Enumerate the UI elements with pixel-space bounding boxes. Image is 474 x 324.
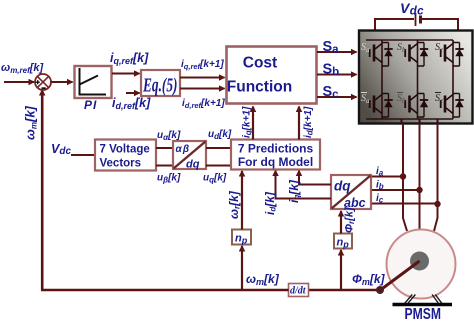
node phase b junction — [416, 187, 422, 193]
wire id[k+1] predictions to cost — [298, 107, 300, 140]
svg-text:Cost: Cost — [243, 55, 277, 72]
wire id[k] — [276, 171, 332, 199]
svg-text:ωm,ref[k]: ωm,ref[k] — [1, 62, 44, 75]
wire Sa — [317, 51, 357, 53]
svg-text:7 Predictions: 7 Predictions — [238, 142, 314, 156]
svg-text:id,ref[k+1]: id,ref[k+1] — [182, 98, 225, 110]
svg-text:uq[k]: uq[k] — [203, 173, 227, 185]
svg-text:Sc: Sc — [323, 84, 340, 101]
inverter top rail — [366, 39, 453, 41]
svg-text:ud[k]: ud[k] — [208, 129, 232, 141]
wire u_d — [206, 147, 231, 149]
label Sc' igbt — [435, 92, 441, 94]
summing junction — [35, 74, 51, 90]
svg-text:Sa: Sa — [323, 39, 340, 56]
svg-text:ic: ic — [376, 193, 384, 205]
wire iq[k+1] predictions to cost — [252, 107, 254, 140]
inverter bottom rail — [366, 118, 453, 120]
wire id,ref[k] stub to Eq5 — [126, 92, 140, 94]
block abc to dq transform — [331, 175, 371, 210]
gain block np left — [232, 230, 251, 246]
IGBT Sa bottom — [369, 94, 393, 118]
wire u_beta — [156, 165, 173, 167]
label Sa' igbt — [361, 92, 367, 94]
wire omega_r from feedback to np — [241, 246, 243, 290]
wire Sc — [317, 96, 357, 98]
svg-text:ia: ia — [376, 166, 384, 178]
wire iq,ref[k] PI to Eq5 — [112, 73, 140, 75]
motor base — [393, 303, 453, 306]
svg-text:iq,ref[k+1]: iq,ref[k+1] — [181, 59, 224, 71]
inverter phase output stubs — [402, 119, 438, 124]
inverter U1 — [359, 31, 473, 124]
wire phase b — [419, 124, 421, 230]
wire u_q — [206, 165, 231, 167]
wire ib tap — [371, 189, 420, 191]
svg-text:Vdc: Vdc — [400, 0, 424, 18]
svg-text:id,ref[k]: id,ref[k] — [112, 96, 151, 111]
block d/dt — [289, 284, 309, 297]
svg-text:αβ: αβ — [176, 144, 191, 155]
wire feedback bottom right — [308, 289, 380, 291]
block Eq.(5) — [141, 70, 180, 97]
IGBT Sc bottom — [440, 94, 464, 118]
motor foot right — [432, 295, 442, 304]
svg-text:ωm[k]: ωm[k] — [246, 272, 280, 287]
svg-text:ωr[k]: ωr[k] — [227, 190, 242, 219]
block Cost Function — [227, 47, 317, 104]
wire feedback bottom left — [41, 289, 289, 292]
wire omega_m,ref input — [4, 81, 34, 83]
wire Sb — [317, 74, 357, 76]
sensor node phi_m — [376, 286, 384, 294]
wire Vdc to voltage vectors — [71, 154, 95, 156]
wire Vdc supply top — [375, 19, 414, 31]
wire ic tap — [371, 203, 438, 205]
svg-text:iq,ref[k]: iq,ref[k] — [110, 51, 149, 66]
wire iq[k] — [299, 171, 331, 185]
svg-text:PMSM: PMSM — [405, 306, 442, 323]
wire phase a — [403, 124, 407, 231]
block alpha-beta to dq — [173, 141, 206, 171]
wire u_alpha — [156, 147, 173, 149]
PI controller block — [75, 66, 112, 98]
svg-text:Eq.(5): Eq.(5) — [142, 75, 177, 97]
svg-text:Sb: Sb — [323, 62, 340, 79]
svg-text:id[k+1]: id[k+1] — [303, 106, 315, 138]
wire iq,ref[k+1] — [180, 77, 225, 79]
wire sum to PI — [51, 81, 73, 83]
IGBT Sb bottom — [404, 94, 428, 118]
IGBT Sc top — [440, 43, 464, 67]
svg-text:7 Voltage: 7 Voltage — [100, 144, 150, 156]
wire phi_r from feedback to np — [340, 250, 342, 290]
shaft — [381, 261, 420, 290]
motor PMSM — [381, 230, 456, 324]
wire phase c — [434, 124, 438, 231]
svg-text:id[k]: id[k] — [263, 191, 278, 215]
svg-text:Vdc: Vdc — [51, 142, 71, 157]
svg-text:dq: dq — [186, 159, 200, 171]
svg-text:For dq Model: For dq Model — [238, 155, 313, 169]
svg-text:PI: PI — [84, 98, 97, 112]
svg-text:d/dt: d/dt — [290, 286, 307, 297]
capacitor Vdc — [415, 13, 417, 26]
block 7 Voltage Vectors — [95, 140, 156, 171]
svg-text:dq: dq — [334, 179, 351, 194]
inverter leg verticals — [382, 40, 453, 119]
wire feedback left vertical — [41, 90, 44, 290]
node phase c junction — [434, 201, 440, 207]
svg-text:Φr[k]: Φr[k] — [344, 207, 357, 233]
svg-text:uβ[k]: uβ[k] — [157, 173, 181, 185]
svg-text:Function: Function — [227, 79, 292, 96]
svg-text:Vectors: Vectors — [100, 158, 142, 170]
node phase a junction — [400, 173, 406, 179]
wire ia tap — [371, 176, 403, 178]
block 7 Predictions For dq Model — [231, 140, 320, 170]
svg-text:ib: ib — [376, 180, 384, 192]
wire phi_r np to abc/dq — [340, 211, 342, 234]
svg-text:iq[k+1]: iq[k+1] — [242, 106, 254, 138]
gain block np right — [334, 234, 352, 250]
wire omega_r np to predictions — [241, 171, 243, 230]
IGBT Sb top — [404, 43, 428, 67]
motor foot left — [405, 295, 416, 304]
IGBT Sa top — [369, 43, 393, 67]
wire id,ref[k+1] — [180, 88, 225, 90]
svg-text:Φm[k]: Φm[k] — [352, 272, 386, 287]
svg-text:ωm[k]: ωm[k] — [23, 105, 39, 140]
label Sb' igbt — [397, 92, 403, 94]
